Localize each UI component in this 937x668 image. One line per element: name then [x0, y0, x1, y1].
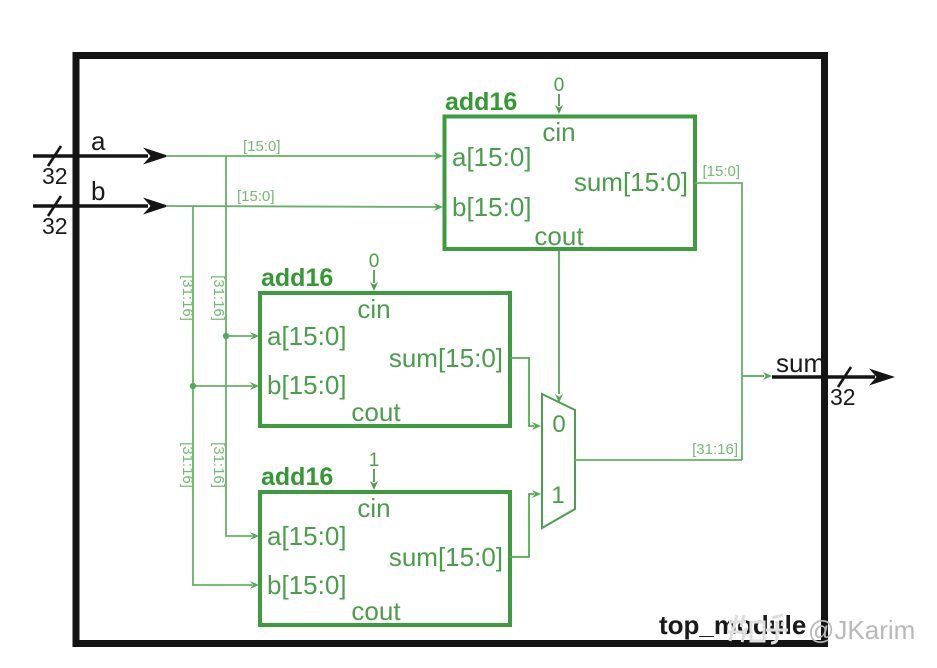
- wire sum node to output port: [742, 372, 772, 380]
- input port a wire: [33, 148, 169, 165]
- watermark 知乎 glyph 2: [766, 615, 788, 643]
- svg-text:[31:16]: [31:16]: [210, 275, 227, 321]
- svg-text:@JKarim: @JKarim: [808, 615, 915, 645]
- svg-text:[31:16]: [31:16]: [692, 441, 738, 458]
- add16 U3 box (bottom): [260, 492, 510, 625]
- wire constant 0 to U2 cin: [370, 270, 378, 291]
- wire a[15:0] to U1: [166, 152, 443, 160]
- wire U2 sum[15:0] to mux input 0: [510, 358, 541, 430]
- svg-text:add16: add16: [261, 264, 333, 292]
- svg-text:sum[15:0]: sum[15:0]: [389, 542, 503, 572]
- mux M1: [542, 394, 575, 528]
- svg-text:[31:16]: [31:16]: [179, 442, 196, 488]
- svg-text:[31:16]: [31:16]: [179, 275, 196, 321]
- wire b[31:16] vertical with elbow to U3: [193, 206, 259, 589]
- svg-text:0: 0: [554, 75, 565, 96]
- watermark 知乎 glyph 1: [727, 615, 764, 642]
- svg-text:add16: add16: [445, 88, 517, 116]
- bus-width slash b: [48, 196, 61, 216]
- svg-text:[31:16]: [31:16]: [210, 442, 227, 488]
- svg-text:cin: cin: [357, 493, 390, 523]
- svg-text:add16: add16: [261, 463, 333, 491]
- svg-text:32: 32: [830, 384, 856, 410]
- wire a[31:16] vertical with elbow to U3: [226, 156, 259, 540]
- svg-text:[15:0]: [15:0]: [243, 138, 281, 155]
- svg-text:cout: cout: [351, 596, 401, 626]
- svg-text:b[15:0]: b[15:0]: [267, 570, 347, 600]
- svg-text:cout: cout: [534, 221, 584, 251]
- svg-text:cin: cin: [542, 117, 575, 147]
- wire a[31:16] branch to U2: [226, 332, 259, 340]
- svg-text:sum[15:0]: sum[15:0]: [574, 167, 688, 197]
- svg-text:sum[15:0]: sum[15:0]: [389, 343, 503, 373]
- bus-width slash a: [48, 146, 61, 166]
- svg-text:b[15:0]: b[15:0]: [267, 370, 347, 400]
- svg-text:0: 0: [369, 251, 380, 272]
- bus-width slash sum: [838, 367, 851, 387]
- svg-text:cout: cout: [351, 397, 401, 427]
- svg-text:[15:0]: [15:0]: [237, 188, 275, 205]
- wire U1 cout to mux select: [555, 251, 563, 403]
- wire U1 sum[15:0] to output node: [695, 183, 742, 460]
- svg-text:32: 32: [42, 163, 68, 189]
- add16 U2 box (middle): [260, 293, 510, 426]
- svg-text:0: 0: [552, 411, 565, 438]
- output port sum wire: [772, 369, 895, 386]
- wire mux output [31:16]: [575, 459, 742, 461]
- junction a[31:16] / U2: [223, 333, 229, 339]
- svg-text:a: a: [91, 126, 106, 156]
- wire b[31:16] branch to U2: [193, 382, 259, 390]
- svg-text:a[15:0]: a[15:0]: [267, 521, 347, 551]
- add16 U1 box (top): [445, 117, 696, 250]
- wire constant 1 to U3 cin: [370, 469, 378, 490]
- svg-text:cin: cin: [357, 294, 390, 324]
- svg-text:1: 1: [551, 482, 564, 509]
- svg-text:[15:0]: [15:0]: [702, 163, 740, 180]
- svg-text:a[15:0]: a[15:0]: [267, 321, 347, 351]
- junction b[31:16] / U2: [190, 383, 196, 389]
- wire constant 0 to U1 cin: [555, 94, 563, 114]
- svg-text:1: 1: [369, 450, 380, 471]
- wire U3 sum[15:0] to mux input 1: [510, 490, 541, 557]
- svg-text:32: 32: [42, 213, 68, 239]
- wire b[15:0] to U1: [166, 203, 443, 211]
- svg-text:b[15:0]: b[15:0]: [452, 192, 532, 222]
- svg-text:a[15:0]: a[15:0]: [452, 142, 532, 172]
- top_module boundary: [76, 56, 825, 644]
- svg-text:b: b: [91, 176, 105, 206]
- svg-text:sum: sum: [776, 348, 825, 378]
- input port b wire: [33, 198, 169, 215]
